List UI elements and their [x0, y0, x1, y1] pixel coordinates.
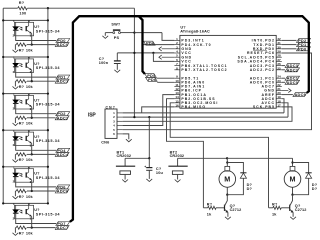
svg-text:ADC2.PC2: ADC2.PC2	[250, 68, 275, 72]
pin 7 PB6.XTAL1.TOSC1	[174, 65, 180, 67]
wire pin 25 to ADC2	[282, 69, 285, 71]
svg-text:SPI-315-34: SPI-315-34	[36, 139, 61, 143]
node rail-right 2	[47, 56, 49, 58]
ground C1	[114, 70, 120, 73]
wire thick net PD6 highlight	[70, 16, 309, 222]
svg-text:100n: 100n	[99, 61, 109, 65]
wire pin 15 PB3 to motor 2 base	[170, 103, 268, 208]
node VCC pin6 branch	[152, 52, 154, 54]
wire pin 20 to ADC6 flag	[282, 94, 293, 96]
node emitter junction 5	[31, 190, 33, 192]
wire emitter to ADC2	[31, 107, 33, 118]
ground BT2	[175, 180, 181, 183]
resistor R2 10k pulldown	[27, 44, 32, 46]
net flag ADC1	[55, 79, 69, 83]
net flag ADC3	[285, 64, 300, 68]
pin 20 AREF	[276, 94, 282, 96]
photo-interrupter U2 SPI-315-34	[15, 22, 34, 36]
pin 31 TXD.PD1	[276, 44, 282, 46]
net flag ADC1	[285, 76, 300, 80]
pin 18 AVCC	[276, 102, 282, 104]
wire resistor to ground 4	[14, 154, 16, 159]
ground switch	[102, 36, 108, 39]
node motor 1 supply	[226, 157, 228, 159]
net flag PD0	[56, 39, 70, 43]
wire LED cathode to PD7	[16, 213, 57, 223]
svg-text:R?: R?	[19, 85, 25, 89]
pin 6 VCC	[174, 60, 180, 62]
wire BT2 positive to motors	[178, 157, 228, 159]
wire VCC to pin 6	[153, 53, 174, 62]
wire collector VCC column	[47, 8, 49, 203]
pin 26 ADC3.PC3	[276, 65, 282, 67]
wire emitter Q2 to ground	[292, 212, 294, 216]
svg-text:PB4.MISO: PB4.MISO	[181, 105, 206, 109]
svg-text:10u: 10u	[156, 171, 164, 175]
wire emitter to ADC4	[31, 143, 33, 154]
svg-text:CR2032: CR2032	[170, 154, 185, 158]
wire pin 19 branch	[282, 99, 284, 113]
pin 28 SCL.ADC5.PC5	[276, 56, 282, 58]
svg-text:PS: PS	[114, 36, 120, 40]
ground BT1	[122, 180, 128, 183]
svg-text:M: M	[290, 175, 296, 184]
svg-text:SPI-315-34: SPI-315-34	[36, 176, 61, 180]
ground block 6	[13, 233, 19, 236]
node rail-right 1	[47, 19, 49, 21]
net flag ADC7	[55, 226, 69, 230]
net flag PD7	[56, 222, 70, 226]
resistor R3 10k pulldown	[27, 80, 32, 82]
node rail-left 6	[2, 202, 4, 204]
wire ISP-2 VCC long net	[123, 116, 288, 118]
node VCC battery branch	[148, 116, 150, 118]
wire VCC to BT1	[148, 117, 150, 158]
wire LED cathode to PD1	[16, 67, 57, 77]
pin 23 ADC0.PC0	[276, 81, 282, 83]
svg-text:D?: D?	[247, 187, 253, 191]
node emitter junction 4	[31, 153, 33, 155]
pin 8 PB7.XTAL2.TOSC2	[174, 69, 180, 71]
wire LED cathode to PD4	[16, 140, 57, 150]
ground ISP	[126, 139, 132, 142]
pin 6 ISP	[117, 133, 123, 135]
wire top rail to switch column	[48, 7, 134, 9]
wire LED cathode to PD0	[16, 30, 57, 40]
pin 21 GND	[276, 90, 282, 92]
ground block 3	[13, 123, 19, 126]
pin 3 GND	[174, 48, 180, 50]
svg-text:ADC6: ADC6	[295, 92, 307, 97]
node VCC column	[133, 116, 135, 118]
wire switch to ground	[104, 33, 106, 36]
thick net flag PD6 lower	[146, 77, 158, 81]
ground block 5	[13, 196, 19, 199]
net flag PD1	[297, 43, 311, 47]
node rail-right 4	[47, 129, 49, 131]
wire VCC row to MCU	[117, 52, 174, 54]
ground Q1	[225, 217, 231, 220]
wire thick net branch to PD5/PD6 flags	[139, 16, 145, 74]
svg-text:ADC0: ADC0	[287, 80, 299, 85]
wire emitter to ADC1	[31, 70, 33, 81]
wire pin 32 to PD2	[282, 39, 297, 41]
wire BT1 positive	[125, 157, 149, 159]
node emitter junction 1	[31, 43, 33, 45]
resistor R7 10k pulldown	[27, 227, 32, 229]
pin 1 ISP	[117, 112, 123, 114]
pin 12 PB0.ICP	[174, 90, 180, 92]
pin 4 ISP	[117, 125, 123, 127]
net flag PD2	[297, 38, 311, 42]
pin 27 SDA.ADC4.PC4	[276, 60, 282, 62]
pin 5 ISP	[117, 129, 123, 131]
net flag PD4	[56, 148, 70, 152]
svg-text:25: 25	[277, 66, 281, 70]
node rail-right 6	[47, 202, 49, 204]
motor M1	[226, 158, 228, 166]
wire rail block 6	[3, 202, 48, 204]
svg-text:10k: 10k	[26, 158, 34, 162]
svg-text:PD6: PD6	[146, 41, 155, 46]
svg-text:ADC4: ADC4	[57, 152, 69, 157]
node rail-left 2	[2, 56, 4, 58]
wire LED cathode to PD2	[16, 103, 57, 113]
svg-text:CN6: CN6	[101, 140, 109, 144]
wire motor 2 to collector node	[292, 187, 294, 194]
svg-text:R?: R?	[272, 202, 278, 206]
resistor R5 10k pulldown	[27, 153, 32, 155]
node rail-right 5	[47, 166, 49, 168]
net flag PD0	[297, 47, 311, 51]
wire pin 30 to PD0	[282, 48, 297, 50]
svg-text:PD6: PD6	[148, 77, 157, 82]
pin 17 SCK.PB5	[276, 106, 282, 108]
svg-text:100: 100	[19, 12, 26, 16]
pin 11 PD7.AIN1	[174, 85, 180, 87]
svg-text:ADC0: ADC0	[57, 42, 69, 47]
resistor R6 10k pulldown	[27, 190, 32, 192]
svg-text:SPI-315-34: SPI-315-34	[36, 66, 61, 70]
node rail-left 5	[2, 166, 4, 168]
pin 16 PB4.MISO	[174, 106, 180, 108]
svg-text:1k: 1k	[207, 212, 212, 216]
svg-text:R?: R?	[19, 1, 25, 5]
svg-text:M: M	[224, 175, 230, 184]
pin 13 PB1.OC1A	[174, 94, 180, 96]
node rail-left 4	[2, 129, 4, 131]
ground pin 21	[282, 90, 289, 92]
net flag PD1	[56, 75, 70, 79]
pin 25 ADC2.PC2	[276, 69, 282, 71]
pin 14 PB2.OC1B.SS	[174, 98, 180, 100]
net flag ADC0	[55, 43, 69, 47]
net flag ADC4	[55, 152, 69, 156]
node emitter junction 3	[31, 117, 33, 119]
net flag ADC6	[55, 189, 69, 193]
resistor R4 10k pulldown	[27, 117, 32, 119]
pin 15 PB3.OC2.MOSI	[174, 102, 180, 104]
svg-text:R?: R?	[19, 231, 25, 235]
svg-text:R?: R?	[19, 158, 25, 162]
wire ISP-5 RESET to pin 29	[123, 53, 312, 130]
node rail-left 3	[2, 92, 4, 94]
wire pin 23 to ADC0	[282, 81, 285, 83]
node VCC top junction	[47, 7, 49, 9]
wire rail block 3	[3, 93, 48, 95]
pin 30 RXD.PD0	[276, 48, 282, 50]
diode D2 flyback	[293, 163, 309, 174]
wire flag to pin 9	[156, 77, 174, 79]
pin 2 ISP	[117, 116, 123, 118]
pin 19 ADC6	[276, 98, 282, 100]
wire pin 26 to ADC3	[282, 65, 285, 67]
ground C2	[146, 179, 152, 182]
svg-text:ADC1: ADC1	[57, 79, 69, 84]
transistor Q1 C2712	[224, 205, 226, 211]
wire rail block 1	[3, 19, 48, 21]
ground block 1	[13, 50, 19, 53]
wire emitter to ADC7	[31, 217, 33, 228]
wire LED-anode column	[2, 8, 4, 203]
thick net flag PD5	[145, 73, 157, 77]
svg-text:17: 17	[277, 103, 281, 107]
net flag ADC0	[285, 80, 300, 84]
wire resistor to ground 1	[14, 45, 16, 50]
wire ISP-4 MOSI to pin 13	[123, 95, 175, 126]
svg-text:SW?: SW?	[111, 23, 121, 27]
wire resistor to ground 6	[14, 228, 16, 233]
ground block 2	[13, 86, 19, 89]
net flag PD2	[56, 112, 70, 116]
ground pin 3	[162, 48, 175, 50]
node switch-VCC	[133, 31, 135, 33]
photo-interrupter U4 SPI-315-34	[15, 96, 34, 110]
svg-text:ADC2: ADC2	[287, 67, 299, 72]
net flag ADC2	[285, 68, 300, 72]
photo-interrupter U6 SPI-315-34	[15, 169, 34, 183]
svg-text:SPI-315-34: SPI-315-34	[36, 29, 61, 33]
svg-text:SPI-315-34: SPI-315-34	[36, 212, 61, 216]
svg-text:ADC2: ADC2	[57, 115, 69, 120]
wire motor 1 to collector node	[226, 187, 228, 194]
pin 2 PD4.XCK.T0	[174, 44, 180, 46]
svg-text:R?: R?	[19, 195, 25, 199]
wire emitter Q1 to ground	[227, 212, 229, 216]
pin 9 PD5.T1	[174, 77, 180, 79]
ground Q2	[290, 217, 296, 220]
svg-text:SPI-315-34: SPI-315-34	[36, 103, 61, 107]
wire resistor to ground 2	[14, 81, 16, 86]
pin 24 ADC1.PC1	[276, 77, 282, 79]
wire flag to pin 10	[157, 81, 174, 83]
pin 22 ADC7	[276, 85, 282, 87]
resistor R1 100 (LED supply)	[3, 7, 17, 9]
wire pin 31 to PD1	[282, 44, 297, 46]
svg-text:10k: 10k	[26, 195, 34, 199]
node collector 1	[226, 194, 228, 196]
pin 4 VCC	[174, 52, 180, 54]
wire switch PS to pin 1 PD3	[134, 32, 162, 34]
svg-text:C2712: C2712	[230, 208, 242, 212]
net flag PD6	[56, 185, 70, 189]
svg-text:C2712: C2712	[295, 208, 307, 212]
svg-text:ADC6: ADC6	[57, 188, 69, 193]
overline RESET pin 29	[253, 49, 267, 51]
node rail-right 3	[47, 92, 49, 94]
wire LED cathode to PD6	[16, 177, 57, 187]
svg-text:SCK.PB5: SCK.PB5	[253, 105, 275, 109]
node VCC-switch column	[133, 52, 135, 54]
net flag ADC2	[55, 116, 69, 120]
wire pin 16 MISO branch	[142, 107, 175, 113]
node rail-left 1	[2, 19, 4, 21]
wire rail block 5	[3, 166, 48, 168]
svg-text:16: 16	[175, 103, 179, 107]
svg-text:10k: 10k	[26, 122, 34, 126]
wire resistor to ground 5	[14, 191, 16, 196]
pin 5 GND	[174, 56, 180, 58]
wire emitter to ADC6	[31, 180, 33, 191]
wire rail block 4	[3, 129, 48, 131]
net flag PD6 on thick net	[144, 41, 156, 45]
svg-text:ADC7: ADC7	[57, 225, 69, 230]
svg-text:ISP: ISP	[88, 112, 96, 118]
svg-text:10k: 10k	[26, 231, 34, 235]
svg-text:1k: 1k	[272, 212, 277, 216]
wire emitter to ADC0	[31, 34, 33, 45]
pin 3 ISP	[117, 120, 123, 122]
pin 32 INT0.PD2	[276, 39, 282, 41]
svg-text:R?: R?	[19, 122, 25, 126]
diode D1 flyback	[227, 163, 243, 174]
svg-text:ATmega8-16AC: ATmega8-16AC	[180, 30, 210, 34]
svg-text:+: +	[144, 165, 146, 169]
node emitter junction 2	[31, 80, 33, 82]
wire ISP-3 SCK to pin 17	[123, 107, 292, 121]
svg-text:D?: D?	[312, 187, 318, 191]
wire rail block 2	[3, 56, 48, 58]
wire ISP-6 to ground	[123, 134, 129, 139]
node collector 2	[291, 194, 293, 196]
transistor Q2 C2712	[289, 205, 291, 211]
svg-text:R?: R?	[207, 202, 213, 206]
wire thick net PD6 to pin 2	[143, 44, 175, 46]
pin 29 RESET.PC6	[276, 52, 282, 54]
net flag ADC6	[293, 93, 307, 97]
node BT1/C2	[148, 157, 150, 159]
photo-interrupter U7 SPI-315-34	[15, 205, 34, 219]
svg-text:CR2032: CR2032	[117, 154, 132, 158]
photo-interrupter U5 SPI-315-34	[15, 132, 34, 146]
svg-text:10k: 10k	[26, 48, 34, 52]
wire switch/VCC vertical	[133, 8, 135, 117]
wire pin 14 PB2 to motor 1 base	[167, 99, 204, 208]
ground pin 5	[162, 56, 175, 58]
pin 10 PD6.AIN0	[174, 81, 180, 83]
svg-text:R?: R?	[19, 48, 25, 52]
motor M2	[292, 158, 294, 166]
photo-interrupter U3 SPI-315-34	[15, 59, 34, 73]
svg-text:10k: 10k	[26, 85, 34, 89]
wire ISP-1 MISO long net	[123, 112, 284, 114]
svg-text:PD0: PD0	[298, 46, 306, 51]
ground block 4	[13, 160, 19, 163]
wire resistor to ground 3	[14, 118, 16, 123]
svg-text:PB7.XTAL2.TOSC2: PB7.XTAL2.TOSC2	[181, 68, 227, 72]
pin 1 PD3.INT1	[174, 39, 180, 41]
node emitter junction 6	[31, 226, 33, 228]
wire pin 24 to ADC1	[282, 77, 285, 79]
wire pin 18 AVCC branch	[282, 103, 288, 117]
